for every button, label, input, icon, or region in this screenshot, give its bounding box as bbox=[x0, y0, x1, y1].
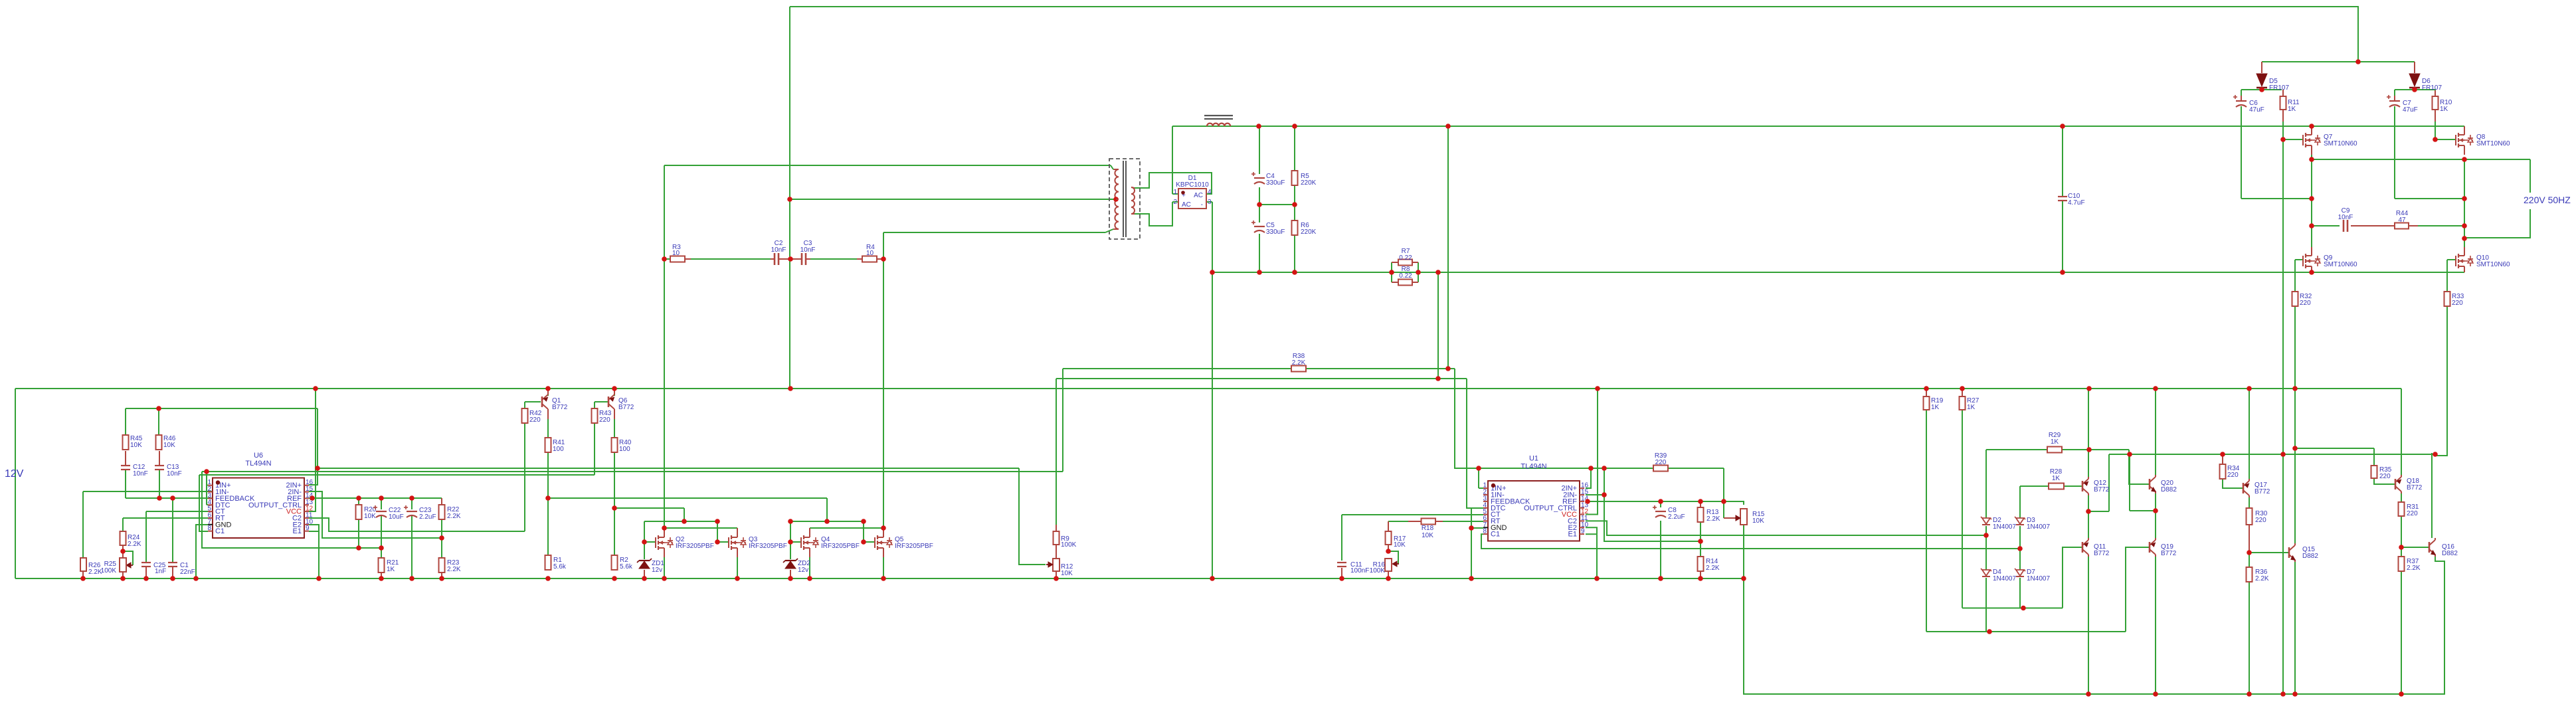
svg-text:2.2K: 2.2K bbox=[88, 569, 102, 576]
svg-text:47uF: 47uF bbox=[2403, 106, 2418, 114]
svg-text:B772: B772 bbox=[2254, 488, 2270, 495]
svg-text:2.2K: 2.2K bbox=[447, 566, 461, 573]
svg-text:1K: 1K bbox=[2440, 106, 2448, 113]
svg-text:2.2K: 2.2K bbox=[2255, 575, 2269, 582]
svg-text:330uF: 330uF bbox=[1266, 228, 1285, 236]
svg-text:100K: 100K bbox=[1370, 567, 1386, 574]
svg-text:D882: D882 bbox=[2442, 550, 2458, 557]
svg-text:E1: E1 bbox=[1568, 531, 1577, 539]
svg-text:2: 2 bbox=[1173, 199, 1177, 206]
svg-text:1K: 1K bbox=[2051, 438, 2059, 446]
svg-text:220V 50HZ: 220V 50HZ bbox=[2524, 195, 2571, 205]
svg-text:C1: C1 bbox=[1491, 531, 1500, 539]
svg-text:10K: 10K bbox=[130, 442, 142, 449]
svg-text:22nF: 22nF bbox=[180, 569, 195, 576]
svg-text:220: 220 bbox=[529, 416, 541, 424]
svg-text:SMT10N60: SMT10N60 bbox=[2476, 140, 2510, 147]
svg-text:220K: 220K bbox=[1301, 179, 1317, 187]
svg-text:R18: R18 bbox=[1422, 525, 1434, 532]
svg-text:TL494N: TL494N bbox=[245, 460, 271, 468]
svg-text:5.6k: 5.6k bbox=[553, 563, 567, 571]
svg-text:12V: 12V bbox=[5, 468, 24, 480]
svg-text:1nF: 1nF bbox=[155, 568, 166, 575]
svg-text:9: 9 bbox=[306, 525, 310, 532]
svg-text:220: 220 bbox=[2227, 472, 2239, 479]
svg-text:U1: U1 bbox=[1529, 455, 1538, 463]
svg-text:B772: B772 bbox=[2094, 550, 2110, 557]
svg-text:AC: AC bbox=[1182, 201, 1191, 209]
svg-text:U6: U6 bbox=[254, 452, 263, 460]
svg-text:2.2uF: 2.2uF bbox=[419, 513, 436, 521]
svg-text:220: 220 bbox=[2407, 510, 2418, 517]
svg-text:10K: 10K bbox=[1422, 532, 1433, 539]
svg-text:220K: 220K bbox=[1301, 228, 1317, 236]
svg-text:100nF: 100nF bbox=[1350, 567, 1369, 574]
svg-text:B772: B772 bbox=[618, 404, 634, 411]
svg-text:-: - bbox=[1201, 201, 1203, 209]
svg-text:FR107: FR107 bbox=[2269, 84, 2289, 92]
svg-text:10K: 10K bbox=[1061, 570, 1073, 577]
svg-text:1K: 1K bbox=[1967, 404, 1976, 411]
svg-text:IRF3205PBF: IRF3205PBF bbox=[749, 543, 787, 550]
svg-text:1N4007: 1N4007 bbox=[2027, 575, 2050, 582]
svg-text:2.2uF: 2.2uF bbox=[1668, 513, 1685, 521]
svg-text:1K: 1K bbox=[2052, 475, 2061, 482]
svg-text:220: 220 bbox=[1655, 459, 1667, 466]
svg-text:D882: D882 bbox=[2302, 553, 2318, 560]
svg-text:220: 220 bbox=[599, 416, 610, 424]
svg-text:2.2K: 2.2K bbox=[1706, 515, 1720, 523]
svg-text:10nF: 10nF bbox=[167, 470, 182, 478]
svg-text:B772: B772 bbox=[2094, 486, 2110, 493]
svg-text:SMT10N60: SMT10N60 bbox=[2476, 261, 2510, 268]
svg-text:10nF: 10nF bbox=[133, 470, 148, 478]
svg-text:1N4007: 1N4007 bbox=[1993, 523, 2016, 531]
svg-text:IRF3205PBF: IRF3205PBF bbox=[821, 543, 860, 550]
svg-text:SMT10N60: SMT10N60 bbox=[2324, 261, 2357, 268]
svg-text:SMT10N60: SMT10N60 bbox=[2324, 140, 2357, 147]
svg-text:8: 8 bbox=[207, 525, 211, 532]
svg-text:0.22: 0.22 bbox=[1399, 272, 1412, 280]
svg-text:10nF: 10nF bbox=[2338, 214, 2353, 221]
svg-text:4: 4 bbox=[1208, 189, 1212, 196]
svg-text:IRF3205PBF: IRF3205PBF bbox=[676, 543, 714, 550]
svg-text:1N4007: 1N4007 bbox=[1993, 575, 2016, 582]
svg-text:10: 10 bbox=[672, 250, 680, 257]
svg-text:10nF: 10nF bbox=[800, 246, 816, 254]
svg-text:B772: B772 bbox=[552, 404, 568, 411]
svg-text:12v: 12v bbox=[652, 567, 662, 574]
svg-text:1K: 1K bbox=[2288, 106, 2296, 113]
svg-text:1: 1 bbox=[1173, 189, 1177, 196]
svg-text:8: 8 bbox=[1483, 528, 1487, 535]
svg-text:10K: 10K bbox=[1394, 541, 1406, 549]
svg-text:FR107: FR107 bbox=[2422, 84, 2442, 92]
svg-text:10K: 10K bbox=[1752, 517, 1764, 525]
svg-text:0.22: 0.22 bbox=[1399, 254, 1412, 262]
svg-text:2.2K: 2.2K bbox=[1706, 565, 1720, 572]
svg-text:220: 220 bbox=[2300, 300, 2311, 307]
svg-text:5.6k: 5.6k bbox=[620, 563, 633, 571]
svg-text:100: 100 bbox=[619, 446, 630, 453]
svg-text:220: 220 bbox=[2255, 517, 2266, 524]
svg-text:100: 100 bbox=[553, 446, 564, 453]
svg-text:2.2K: 2.2K bbox=[447, 513, 461, 520]
svg-text:KBPC1010: KBPC1010 bbox=[1176, 181, 1209, 189]
svg-text:10K: 10K bbox=[163, 442, 175, 449]
svg-text:IRF3205PBF: IRF3205PBF bbox=[895, 543, 933, 550]
svg-text:1K: 1K bbox=[387, 566, 395, 573]
svg-text:10nF: 10nF bbox=[771, 246, 786, 254]
svg-text:100K: 100K bbox=[1061, 541, 1077, 549]
svg-text:B772: B772 bbox=[2161, 550, 2177, 557]
svg-text:220: 220 bbox=[2379, 473, 2391, 480]
svg-text:2.2K: 2.2K bbox=[128, 541, 141, 548]
svg-text:100K: 100K bbox=[101, 567, 117, 574]
svg-text:B772: B772 bbox=[2407, 484, 2423, 491]
svg-text:12v: 12v bbox=[798, 567, 808, 574]
svg-text:220: 220 bbox=[2452, 300, 2463, 307]
svg-text:4.7uF: 4.7uF bbox=[2068, 199, 2085, 207]
svg-text:10uF: 10uF bbox=[389, 513, 404, 521]
svg-text:AC: AC bbox=[1194, 192, 1203, 199]
svg-text:9: 9 bbox=[1581, 528, 1585, 535]
svg-text:3: 3 bbox=[1208, 199, 1212, 206]
svg-text:47uF: 47uF bbox=[2249, 106, 2264, 114]
svg-text:47: 47 bbox=[2398, 217, 2406, 224]
svg-text:1N4007: 1N4007 bbox=[2027, 523, 2050, 531]
svg-text:D882: D882 bbox=[2161, 486, 2177, 493]
svg-text:330uF: 330uF bbox=[1266, 179, 1285, 187]
svg-text:E1: E1 bbox=[293, 527, 302, 535]
svg-text:2.2K: 2.2K bbox=[2407, 565, 2421, 572]
svg-text:2.2K: 2.2K bbox=[1292, 359, 1306, 367]
svg-text:C1: C1 bbox=[215, 527, 225, 535]
svg-text:1K: 1K bbox=[1931, 404, 1940, 411]
svg-text:10K: 10K bbox=[364, 513, 376, 520]
svg-text:10: 10 bbox=[866, 250, 874, 257]
svg-text:TL494N: TL494N bbox=[1520, 463, 1546, 471]
